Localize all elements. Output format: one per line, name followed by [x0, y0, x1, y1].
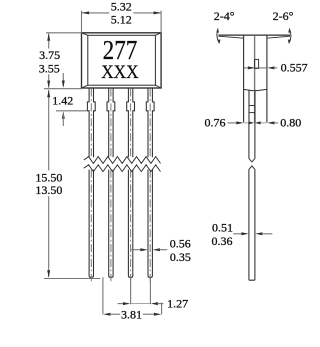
svg-text:0.76: 0.76 — [205, 115, 226, 129]
svg-text:0.35: 0.35 — [170, 250, 191, 264]
svg-text:13.50: 13.50 — [35, 183, 62, 197]
svg-text:0.51: 0.51 — [212, 220, 233, 234]
svg-text:0.80: 0.80 — [280, 115, 301, 129]
svg-text:1.27: 1.27 — [167, 296, 188, 310]
svg-text:0.557: 0.557 — [281, 61, 308, 75]
svg-text:0.56: 0.56 — [170, 236, 191, 250]
svg-text:277: 277 — [103, 35, 138, 65]
svg-text:2-4°: 2-4° — [214, 9, 235, 23]
svg-text:1.42: 1.42 — [52, 93, 73, 107]
svg-text:5.12: 5.12 — [111, 12, 132, 26]
svg-text:3.55: 3.55 — [39, 61, 60, 75]
svg-text:0.36: 0.36 — [212, 234, 233, 248]
svg-text:XXX: XXX — [101, 62, 139, 83]
svg-text:3.81: 3.81 — [121, 307, 142, 321]
svg-text:3.75: 3.75 — [39, 48, 60, 62]
svg-text:2-6°: 2-6° — [273, 9, 294, 23]
